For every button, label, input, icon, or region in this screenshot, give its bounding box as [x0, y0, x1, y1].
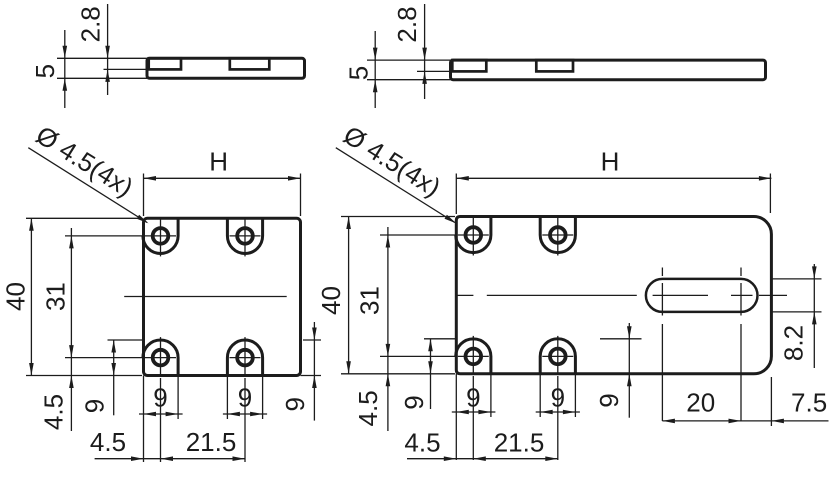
dimension 9 middle (plan D) extension	[600, 338, 642, 340]
dimension 9 left (plan D) line	[430, 339, 432, 409]
side view B extension line top surface	[367, 59, 451, 61]
plan D hole 2 centermark	[542, 234, 573, 236]
dimension 9 pocket-right (plan D)	[536, 411, 580, 413]
dimension 4.5 left (plan C) arrow	[69, 376, 74, 389]
svg-text:31: 31	[40, 282, 70, 311]
svg-text:2.8: 2.8	[75, 6, 105, 42]
plan D slot outline	[646, 279, 758, 312]
dimension 31 (plan C) arrows	[69, 236, 74, 249]
dimension 40 (plan D) line	[348, 217, 350, 374]
dimension 31 (plan D) arrows	[386, 235, 391, 248]
plan C hole 1 circle	[153, 228, 169, 244]
svg-text:Ø 4.5(4x): Ø 4.5(4x)	[31, 120, 139, 203]
plan C pocket top-left	[143, 217, 178, 253]
dimension 21.5 (plan C)	[161, 458, 246, 460]
plan D pocket bottom-left	[456, 339, 491, 375]
dimension 21.5 (plan D)	[473, 458, 558, 460]
svg-text:9: 9	[466, 383, 480, 413]
svg-text:9: 9	[153, 382, 167, 412]
dimension 5 (view A) line	[64, 30, 66, 108]
plan C hole 4 centermark	[230, 357, 261, 359]
dimension 5 (view B) arrows	[373, 48, 378, 61]
dimension 5 (view A) arrows	[63, 46, 68, 59]
svg-text:21.5: 21.5	[186, 427, 237, 457]
dimension 9 right (plan C) extensions	[303, 339, 321, 341]
dimension H (plan D) arrows	[456, 176, 469, 181]
dimension 31 (plan C) line	[70, 228, 72, 431]
dimension 9 right (plan C) arrows	[312, 328, 317, 341]
dimension 2.8 (view A) arrows	[105, 46, 110, 59]
dimension 40 (plan C) extensions	[26, 217, 142, 219]
svg-text:Ø 4.5(4x): Ø 4.5(4x)	[338, 120, 446, 203]
plan C H extension lines	[143, 174, 145, 217]
plan C pocket bottom-left	[143, 340, 178, 377]
dimension 9 middle (plan D) arrows	[627, 326, 632, 339]
plan D hole 3 centermark	[458, 355, 489, 357]
side view A extension line top surface	[57, 57, 147, 59]
side view B plate outline	[451, 60, 766, 80]
plan C hole 1 centermark	[145, 235, 176, 237]
plan D horizontal centerline	[456, 294, 473, 296]
plan D hole 4 centermark	[542, 355, 573, 357]
dimension 40 (plan D) arrows	[346, 217, 351, 230]
plan D pocket top-right	[540, 216, 575, 253]
svg-text:5: 5	[30, 64, 60, 78]
plan C pocket top-right	[227, 217, 262, 253]
plan C hole 3 centermark	[145, 357, 176, 359]
dimension 9 left (plan D) extension	[424, 338, 456, 340]
dimension 9 middle (plan D) line	[628, 323, 630, 418]
svg-text:9: 9	[280, 397, 310, 411]
svg-text:40: 40	[316, 286, 346, 315]
dimension 7.5 (plan D) line	[741, 420, 829, 422]
svg-text:31: 31	[354, 286, 384, 315]
side view B extension line notch bottom	[417, 70, 451, 72]
dimension 2.8 (view B) line	[424, 4, 426, 99]
plan C hole 2 circle	[237, 228, 253, 244]
plan D hole 2 circle	[550, 227, 566, 243]
dimension 40 (plan D) extensions	[341, 216, 455, 218]
dimension 20 (plan D) line	[662, 420, 741, 422]
svg-text:9: 9	[79, 399, 109, 413]
dimension 2.8 (view B) arrows	[422, 48, 427, 61]
hole callout leader (plan D)	[336, 148, 455, 223]
plan C hole 4 circle	[237, 350, 253, 366]
dimension 9 pocket-left (plan C)	[139, 413, 183, 415]
plan D hole 1 centermark	[458, 234, 489, 236]
plan D hole 4 circle	[550, 349, 566, 365]
dimension 8.2 (plan D) extensions	[771, 278, 822, 280]
plan D hole 1 circle	[466, 227, 482, 243]
hole callout leader (plan C)	[28, 148, 147, 223]
plan D H extension lines	[455, 174, 457, 215]
dimension 9 pocket-left (plan D)	[452, 411, 496, 413]
side view A extension line notch bottom	[104, 68, 148, 70]
plan D hole 3 circle	[466, 349, 482, 365]
svg-text:4.5: 4.5	[353, 390, 383, 426]
dimension H (plan D) line	[456, 177, 771, 179]
svg-text:9: 9	[551, 383, 565, 413]
dimension 9 left (plan C) line	[113, 340, 115, 415]
dimension 7.5 (plan D) extension	[770, 377, 772, 426]
plan D pocket bottom-right	[540, 339, 575, 375]
side view B notch 2	[536, 60, 573, 71]
svg-text:7.5: 7.5	[791, 387, 827, 417]
dimension 2.8 (view A) line	[107, 4, 109, 95]
svg-text:2.8: 2.8	[392, 6, 422, 42]
svg-text:H: H	[209, 147, 228, 177]
plan C bottom extension lines	[143, 376, 145, 463]
side view A plate outline	[147, 58, 305, 78]
dimension 9 right (plan C) line	[313, 322, 315, 421]
svg-text:40: 40	[0, 282, 30, 311]
dimension 5 (view B) line	[374, 31, 376, 108]
svg-text:4.5: 4.5	[38, 394, 68, 430]
side view A extension line bottom surface	[57, 77, 147, 79]
dimension 9 left (plan D) arrows	[428, 339, 433, 352]
dimension 7.5 (plan D) arrow	[771, 419, 784, 424]
plan D bottom extension lines	[455, 374, 457, 460]
dimension 9 left (plan C) arrows	[111, 340, 116, 353]
plan D pocket top-left	[456, 216, 491, 253]
svg-text:21.5: 21.5	[494, 428, 545, 458]
dimension 8.2 (plan D) arrows	[812, 266, 817, 279]
plan D slot right vertical centerline	[740, 268, 742, 277]
svg-text:20: 20	[686, 387, 715, 417]
dimension 4.5 bottom (plan D)	[407, 458, 473, 460]
plan C pocket bottom-right	[227, 340, 262, 377]
svg-text:8.2: 8.2	[778, 325, 808, 361]
side view A notch 2	[230, 58, 269, 69]
svg-text:5: 5	[343, 66, 373, 80]
svg-text:H: H	[601, 147, 620, 177]
plan C hole 3 circle	[153, 350, 169, 366]
plan C horizontal centerline	[124, 296, 287, 298]
dimension 40 (plan C) line	[30, 218, 32, 375]
svg-text:9: 9	[594, 393, 624, 407]
dimension 31 (plan D) line	[387, 227, 389, 431]
svg-text:4.5: 4.5	[90, 427, 126, 457]
dimension 20 (plan D) arrows	[662, 419, 675, 424]
dimension H (plan C) arrows	[144, 176, 157, 181]
plan D slot left vertical centerline	[661, 268, 663, 277]
dimension H (plan C) line	[144, 177, 301, 179]
side view B extension line bottom surface	[367, 79, 451, 81]
dimension 4.5 bottom (plan C)	[95, 458, 161, 460]
dimension 4.5 left (plan D) arrow	[386, 374, 391, 387]
svg-text:9: 9	[238, 382, 252, 412]
side view B notch 1	[452, 60, 486, 71]
side view A notch 1	[149, 58, 181, 69]
plan D plate outline	[456, 217, 771, 374]
dimension 9 pocket-right (plan C)	[223, 413, 267, 415]
dimension 8.2 (plan D) line	[813, 264, 815, 368]
svg-text:9: 9	[399, 395, 429, 409]
plan C hole 2 centermark	[230, 235, 261, 237]
svg-text:4.5: 4.5	[404, 428, 440, 458]
dimension 9 left (plan C) extension	[108, 339, 144, 341]
dimension 31 (plan C) extensions	[65, 235, 142, 237]
plan C plate outline	[144, 218, 301, 375]
dimension 40 (plan C) arrows	[29, 218, 34, 231]
dimension 31 (plan D) extensions	[380, 234, 455, 236]
